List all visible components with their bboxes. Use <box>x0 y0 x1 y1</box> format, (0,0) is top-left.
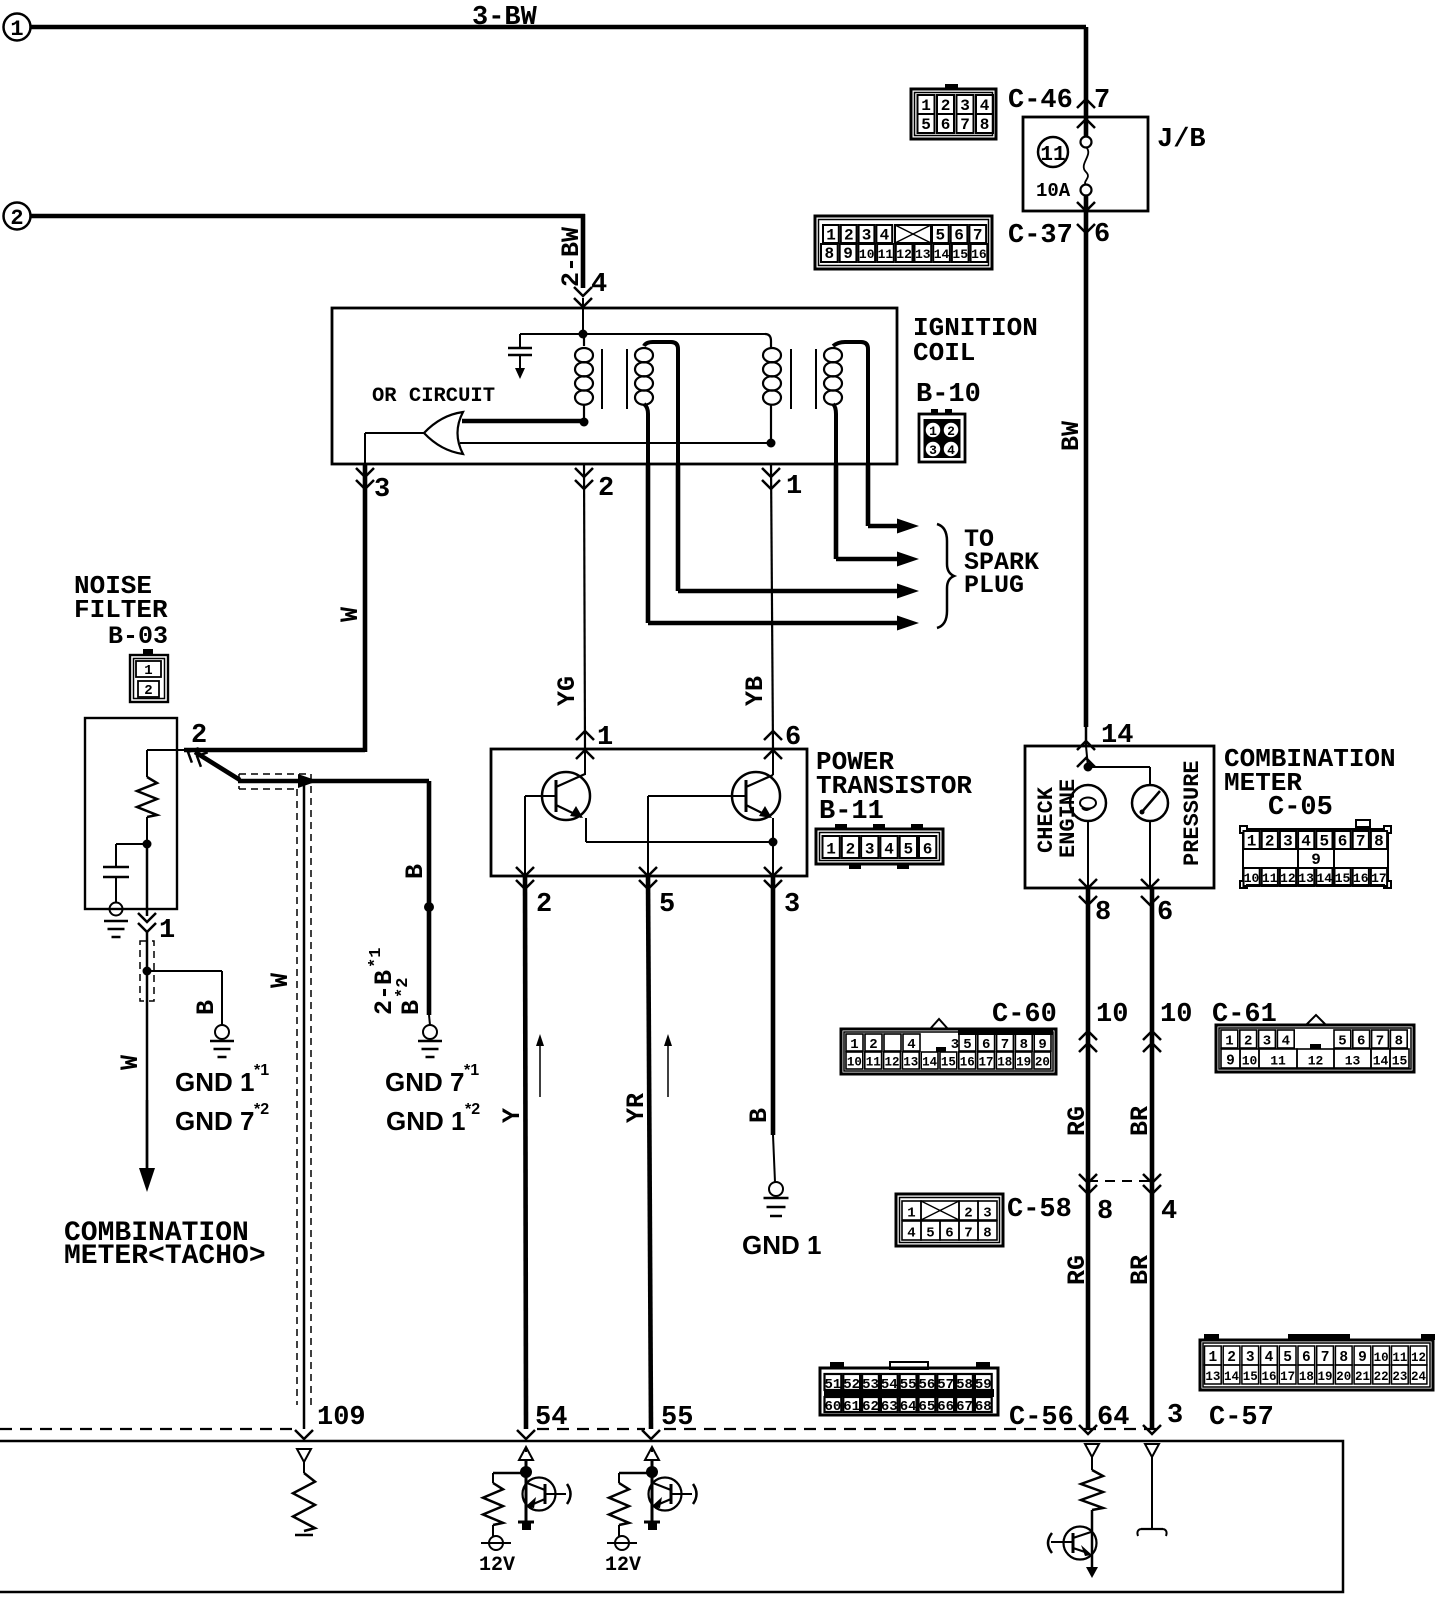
svg-text:6: 6 <box>941 116 951 134</box>
svg-text:9: 9 <box>1226 1054 1235 1070</box>
svg-text:3: 3 <box>1246 1350 1255 1366</box>
svg-text:12: 12 <box>1411 1351 1426 1365</box>
svg-text:2: 2 <box>598 474 614 504</box>
svg-text:YR: YR <box>622 1093 651 1123</box>
svg-text:4: 4 <box>907 1037 915 1053</box>
svg-text:COIL: COIL <box>913 338 975 368</box>
svg-text:52: 52 <box>843 1377 860 1393</box>
svg-text:6: 6 <box>1338 833 1348 851</box>
svg-text:1: 1 <box>826 227 836 245</box>
svg-text:9: 9 <box>843 245 853 263</box>
svg-text:*2: *2 <box>254 1101 269 1118</box>
svg-text:5: 5 <box>1338 1034 1346 1050</box>
svg-text:OR CIRCUIT: OR CIRCUIT <box>372 385 495 408</box>
svg-text:FILTER: FILTER <box>74 595 168 625</box>
svg-text:3: 3 <box>1283 833 1293 851</box>
svg-text:7: 7 <box>964 1226 972 1242</box>
svg-text:5: 5 <box>903 841 913 859</box>
svg-text:1: 1 <box>597 723 613 753</box>
svg-text:3: 3 <box>960 97 970 115</box>
svg-text:17: 17 <box>978 1056 993 1070</box>
svg-text:13: 13 <box>903 1056 918 1070</box>
svg-text:5: 5 <box>659 890 675 920</box>
svg-text:6: 6 <box>945 1226 953 1242</box>
svg-text:9: 9 <box>1038 1037 1046 1053</box>
svg-text:7: 7 <box>1094 86 1110 116</box>
svg-text:14: 14 <box>1316 871 1332 886</box>
svg-text:1: 1 <box>10 17 23 42</box>
svg-text:2: 2 <box>191 721 207 751</box>
svg-text:15: 15 <box>1335 871 1351 886</box>
svg-text:2-BW: 2-BW <box>557 227 586 287</box>
svg-text:W: W <box>336 607 365 622</box>
svg-text:4: 4 <box>947 443 955 458</box>
svg-text:16: 16 <box>1261 1370 1276 1384</box>
svg-text:3: 3 <box>374 475 390 505</box>
svg-text:12V: 12V <box>605 1554 641 1577</box>
svg-text:3: 3 <box>865 841 875 859</box>
svg-text:2: 2 <box>1265 833 1275 851</box>
svg-text:13: 13 <box>915 247 931 262</box>
svg-text:24: 24 <box>1411 1370 1427 1384</box>
svg-text:54: 54 <box>881 1377 898 1393</box>
svg-text:3: 3 <box>951 1037 959 1053</box>
svg-text:GND 1: GND 1 <box>175 1067 254 1097</box>
svg-text:1: 1 <box>159 916 175 946</box>
svg-text:6: 6 <box>954 227 964 245</box>
svg-text:1: 1 <box>921 97 931 115</box>
svg-text:GND 1: GND 1 <box>742 1230 821 1260</box>
svg-text:20: 20 <box>1336 1370 1351 1384</box>
svg-text:10: 10 <box>847 1056 862 1070</box>
svg-text:9: 9 <box>1358 1350 1367 1366</box>
svg-text:19: 19 <box>1318 1370 1333 1384</box>
svg-text:66: 66 <box>937 1399 954 1415</box>
svg-text:B-11: B-11 <box>819 797 884 827</box>
svg-text:5: 5 <box>935 227 945 245</box>
svg-text:55: 55 <box>661 1403 693 1433</box>
svg-text:4: 4 <box>980 97 990 115</box>
svg-text:21: 21 <box>1355 1370 1370 1384</box>
svg-text:8: 8 <box>824 245 834 263</box>
svg-text:YB: YB <box>741 676 770 706</box>
svg-text:13: 13 <box>1298 871 1314 886</box>
svg-text:11: 11 <box>1262 871 1278 886</box>
svg-text:8: 8 <box>1095 898 1111 928</box>
svg-text:67: 67 <box>956 1399 973 1415</box>
svg-text:12V: 12V <box>479 1554 515 1577</box>
svg-text:2: 2 <box>941 97 951 115</box>
svg-text:8: 8 <box>1395 1034 1403 1050</box>
svg-text:15: 15 <box>1392 1054 1408 1069</box>
svg-text:11: 11 <box>1270 1054 1286 1069</box>
svg-text:2: 2 <box>947 424 955 439</box>
svg-text:1: 1 <box>907 1206 915 1222</box>
svg-text:12: 12 <box>896 247 912 262</box>
svg-text:16: 16 <box>971 247 987 262</box>
svg-text:56: 56 <box>918 1377 935 1393</box>
svg-text:W: W <box>116 1055 145 1070</box>
svg-text:6: 6 <box>923 841 933 859</box>
svg-text:B: B <box>745 1108 774 1123</box>
svg-text:1: 1 <box>850 1037 858 1053</box>
svg-text:10A: 10A <box>1036 180 1071 202</box>
svg-text:1: 1 <box>1208 1350 1217 1366</box>
svg-text:5: 5 <box>921 116 931 134</box>
svg-text:10: 10 <box>1160 1000 1192 1030</box>
svg-text:14: 14 <box>934 247 950 262</box>
svg-text:GND 7: GND 7 <box>175 1106 254 1136</box>
svg-text:6: 6 <box>785 723 801 753</box>
svg-text:8: 8 <box>1374 833 1384 851</box>
svg-text:RG: RG <box>1063 1106 1092 1136</box>
svg-text:18: 18 <box>997 1056 1012 1070</box>
svg-text:6: 6 <box>1357 1034 1365 1050</box>
svg-text:61: 61 <box>843 1399 860 1415</box>
svg-text:17: 17 <box>1371 871 1387 886</box>
svg-text:4: 4 <box>1265 1350 1274 1366</box>
svg-text:METER<TACHO>: METER<TACHO> <box>64 1241 266 1272</box>
svg-text:5: 5 <box>963 1037 971 1053</box>
svg-text:3: 3 <box>983 1206 991 1222</box>
svg-text:5: 5 <box>1283 1350 1292 1366</box>
svg-text:18: 18 <box>1299 1370 1314 1384</box>
svg-text:*1: *1 <box>367 948 386 968</box>
svg-text:*1: *1 <box>464 1062 479 1079</box>
svg-text:7: 7 <box>1001 1037 1009 1053</box>
svg-text:10: 10 <box>859 247 875 262</box>
svg-text:11: 11 <box>1392 1351 1407 1365</box>
svg-text:65: 65 <box>918 1399 935 1415</box>
svg-text:63: 63 <box>881 1399 898 1415</box>
svg-text:7: 7 <box>1321 1350 1330 1366</box>
svg-text:15: 15 <box>941 1056 956 1070</box>
svg-text:8: 8 <box>1020 1037 1028 1053</box>
svg-text:12: 12 <box>884 1056 899 1070</box>
svg-text:8: 8 <box>980 116 990 134</box>
svg-text:3: 3 <box>1167 1401 1183 1431</box>
svg-text:7: 7 <box>960 116 970 134</box>
svg-text:2: 2 <box>1244 1034 1252 1050</box>
svg-text:9: 9 <box>1311 851 1321 869</box>
svg-text:C-37: C-37 <box>1008 221 1073 251</box>
svg-text:14: 14 <box>1373 1054 1389 1069</box>
svg-text:12: 12 <box>1308 1054 1324 1069</box>
svg-text:2: 2 <box>869 1037 877 1053</box>
svg-text:59: 59 <box>975 1377 992 1393</box>
svg-text:14: 14 <box>1224 1370 1240 1384</box>
svg-text:C-46: C-46 <box>1008 86 1073 116</box>
svg-text:12: 12 <box>1280 871 1296 886</box>
svg-text:B: B <box>401 864 430 879</box>
svg-text:3: 3 <box>929 443 937 458</box>
svg-text:8: 8 <box>1339 1350 1348 1366</box>
svg-text:6: 6 <box>1094 220 1110 250</box>
svg-text:B: B <box>192 1000 221 1015</box>
svg-text:2: 2 <box>964 1206 972 1222</box>
svg-text:4: 4 <box>1161 1197 1177 1227</box>
svg-text:6: 6 <box>982 1037 990 1053</box>
svg-text:62: 62 <box>862 1399 879 1415</box>
svg-text:51: 51 <box>824 1377 841 1393</box>
svg-text:10: 10 <box>1242 1054 1258 1069</box>
svg-text:11: 11 <box>1040 144 1065 167</box>
svg-text:16: 16 <box>960 1056 975 1070</box>
svg-text:2: 2 <box>846 841 856 859</box>
svg-text:W: W <box>266 973 295 988</box>
svg-text:2: 2 <box>10 206 23 231</box>
svg-text:BW: BW <box>1057 421 1086 451</box>
svg-text:PLUG: PLUG <box>964 571 1024 600</box>
svg-text:C-58: C-58 <box>1007 1195 1072 1225</box>
svg-text:1: 1 <box>144 663 152 679</box>
svg-text:RG: RG <box>1063 1255 1092 1285</box>
svg-text:BR: BR <box>1126 1106 1155 1136</box>
svg-text:5: 5 <box>926 1226 934 1242</box>
svg-text:6: 6 <box>1157 898 1173 928</box>
svg-text:53: 53 <box>862 1377 879 1393</box>
svg-text:7: 7 <box>1376 1034 1384 1050</box>
svg-text:19: 19 <box>1016 1056 1031 1070</box>
svg-text:6: 6 <box>1302 1350 1311 1366</box>
svg-text:3: 3 <box>1263 1034 1271 1050</box>
svg-text:4: 4 <box>884 841 894 859</box>
svg-text:BR: BR <box>1126 1255 1155 1285</box>
svg-text:GND 7: GND 7 <box>385 1067 464 1097</box>
svg-text:55: 55 <box>900 1377 917 1393</box>
svg-text:1: 1 <box>1247 833 1257 851</box>
svg-text:C-60: C-60 <box>992 1000 1057 1030</box>
svg-text:B: B <box>397 1000 426 1015</box>
svg-text:PRESSURE: PRESSURE <box>1180 760 1205 866</box>
svg-text:10: 10 <box>1096 1000 1128 1030</box>
svg-text:4: 4 <box>880 227 890 245</box>
svg-text:58: 58 <box>956 1377 973 1393</box>
svg-text:B-03: B-03 <box>108 622 168 651</box>
svg-text:54: 54 <box>535 1403 567 1433</box>
svg-text:B-10: B-10 <box>916 380 981 410</box>
svg-text:68: 68 <box>975 1399 992 1415</box>
svg-text:10: 10 <box>1374 1351 1389 1365</box>
svg-text:3: 3 <box>784 890 800 920</box>
svg-text:1: 1 <box>1225 1034 1233 1050</box>
svg-text:4: 4 <box>907 1226 915 1242</box>
svg-text:1: 1 <box>826 841 836 859</box>
svg-text:GND 1: GND 1 <box>386 1106 465 1136</box>
svg-text:14: 14 <box>922 1056 938 1070</box>
svg-text:YG: YG <box>553 676 582 706</box>
svg-text:16: 16 <box>1353 871 1369 886</box>
svg-text:3: 3 <box>862 227 872 245</box>
svg-text:3-BW: 3-BW <box>472 3 538 33</box>
svg-text:13: 13 <box>1205 1370 1220 1384</box>
svg-text:57: 57 <box>937 1377 954 1393</box>
svg-text:11: 11 <box>866 1056 881 1070</box>
svg-text:2: 2 <box>144 683 152 699</box>
svg-text:*2: *2 <box>394 978 413 998</box>
svg-text:C-57: C-57 <box>1209 1403 1274 1433</box>
svg-text:Y: Y <box>498 1108 527 1123</box>
svg-text:8: 8 <box>983 1226 991 1242</box>
svg-text:7: 7 <box>973 227 983 245</box>
svg-text:23: 23 <box>1392 1370 1407 1384</box>
svg-text:17: 17 <box>1280 1370 1295 1384</box>
svg-text:4: 4 <box>1282 1034 1290 1050</box>
svg-text:109: 109 <box>317 1403 366 1433</box>
svg-text:20: 20 <box>1035 1056 1050 1070</box>
svg-text:1: 1 <box>929 424 937 439</box>
svg-text:8: 8 <box>1097 1197 1113 1227</box>
svg-text:2: 2 <box>536 890 552 920</box>
svg-text:15: 15 <box>952 247 968 262</box>
svg-text:64: 64 <box>900 1399 917 1415</box>
svg-text:2: 2 <box>1227 1350 1236 1366</box>
svg-text:10: 10 <box>1244 871 1260 886</box>
svg-text:1: 1 <box>786 472 802 502</box>
svg-text:J/B: J/B <box>1157 125 1206 155</box>
svg-text:C-05: C-05 <box>1268 793 1333 823</box>
svg-text:5: 5 <box>1319 833 1329 851</box>
svg-text:13: 13 <box>1345 1054 1361 1069</box>
svg-text:*1: *1 <box>254 1062 269 1079</box>
svg-text:4: 4 <box>591 270 607 300</box>
svg-text:60: 60 <box>824 1399 841 1415</box>
svg-text:4: 4 <box>1301 833 1311 851</box>
svg-text:7: 7 <box>1356 833 1366 851</box>
svg-text:ENGINE: ENGINE <box>1056 779 1081 858</box>
svg-text:11: 11 <box>878 247 894 262</box>
svg-text:22: 22 <box>1374 1370 1389 1384</box>
svg-text:*2: *2 <box>465 1101 480 1118</box>
svg-text:15: 15 <box>1243 1370 1258 1384</box>
svg-text:2: 2 <box>844 227 854 245</box>
